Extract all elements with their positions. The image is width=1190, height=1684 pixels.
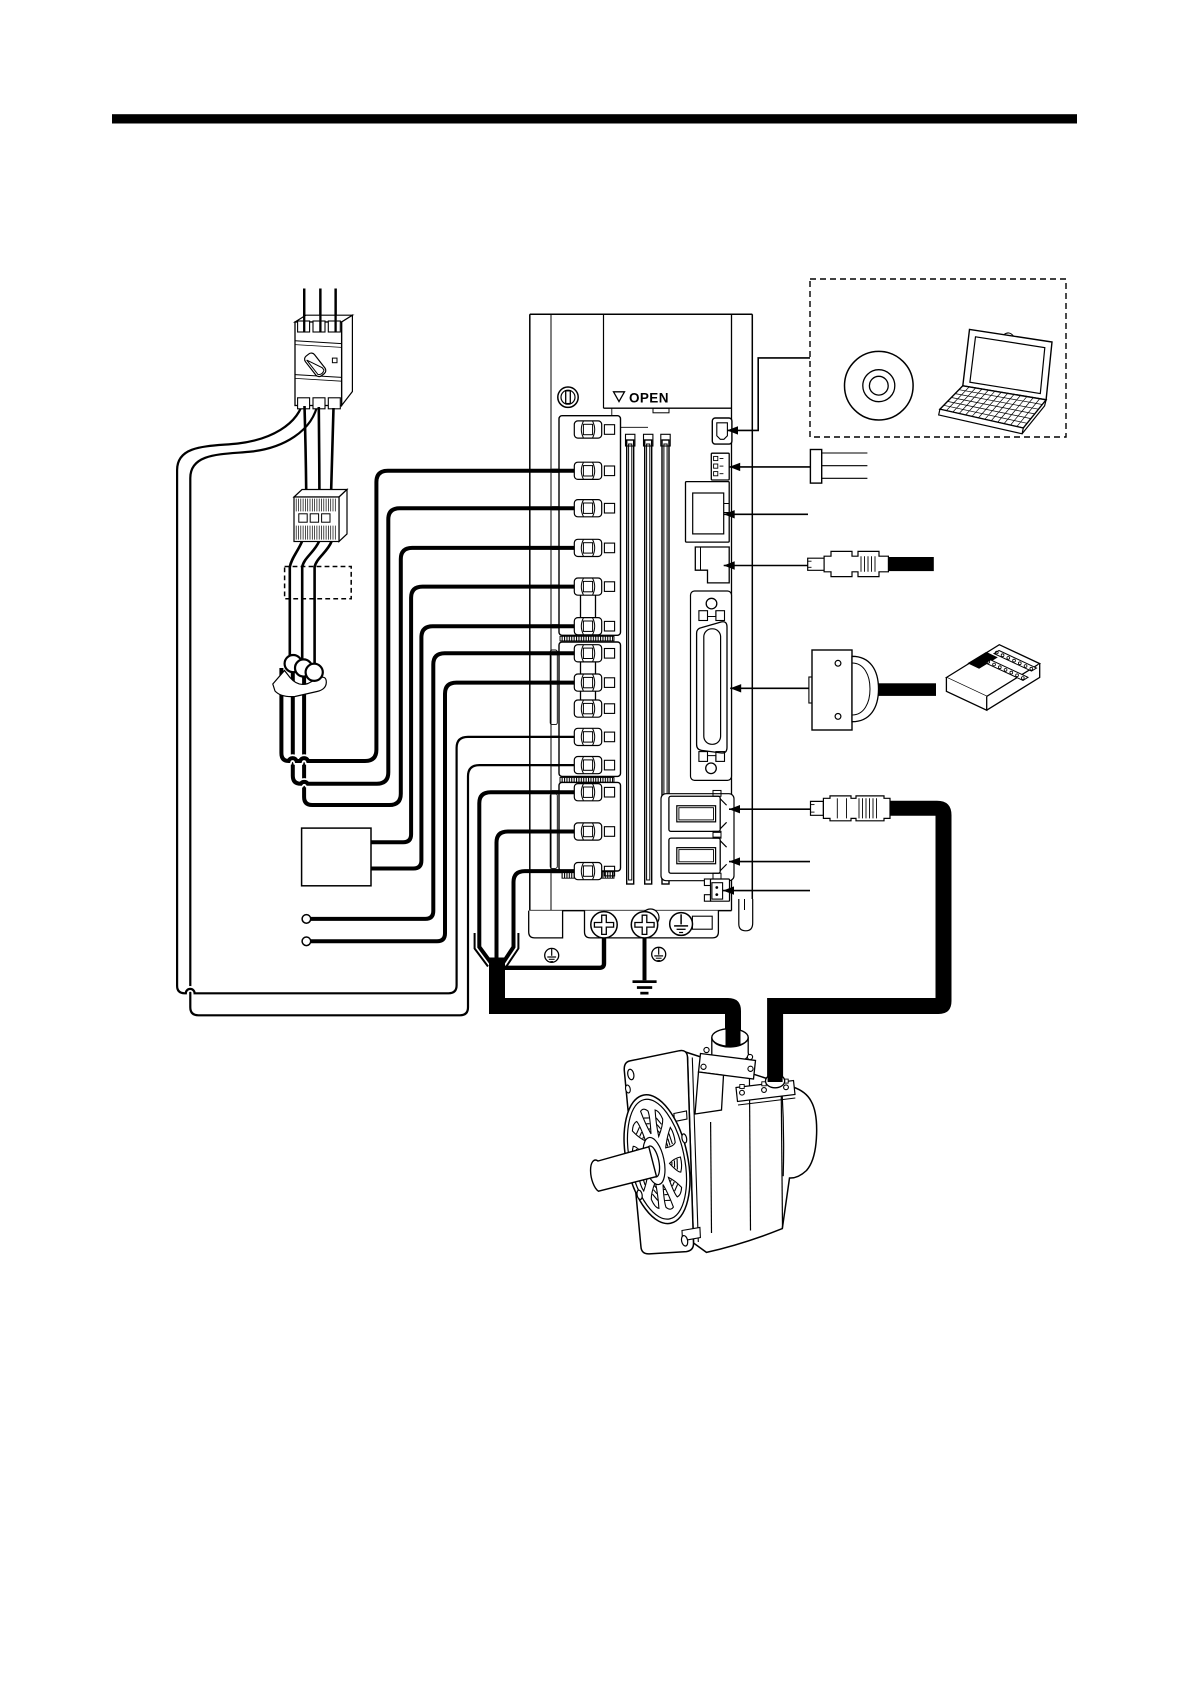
svg-text:OPEN: OPEN: [629, 390, 669, 405]
